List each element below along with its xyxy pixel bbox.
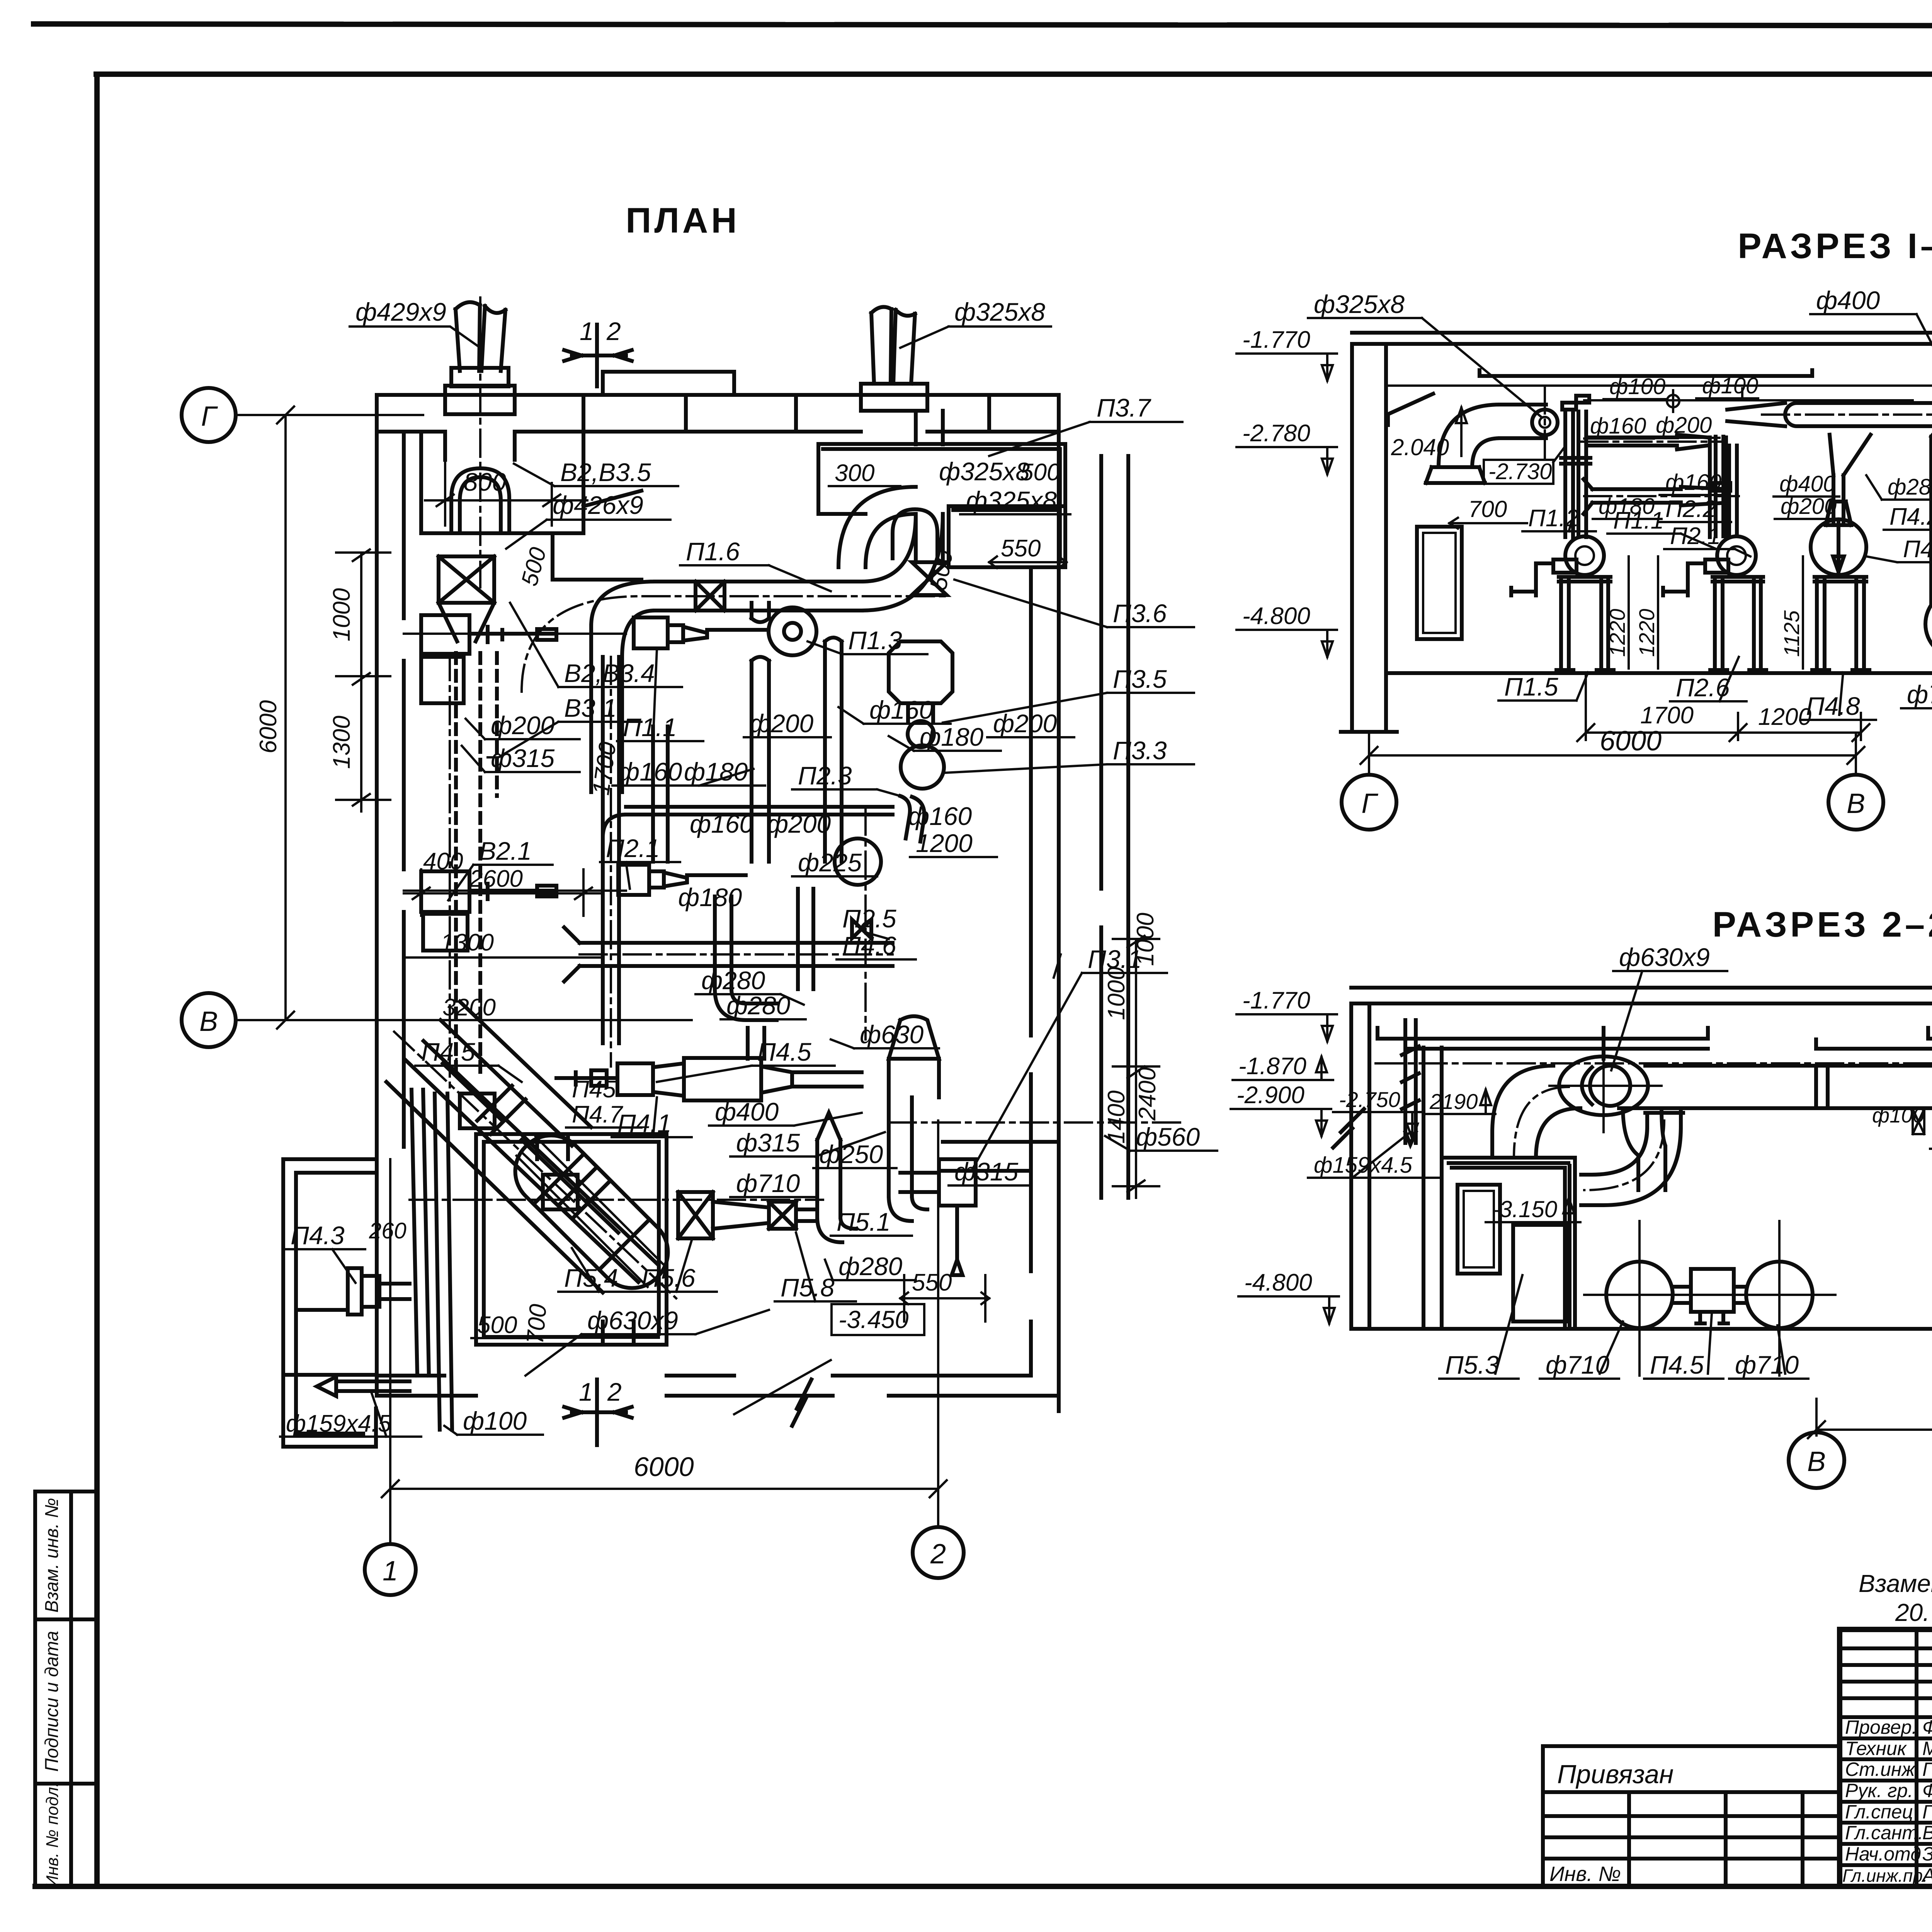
left wall chamfer — [1388, 394, 1433, 425]
svg-text:Рук. гр.: Рук. гр. — [1845, 1780, 1913, 1801]
svg-text:П2.1: П2.1 — [1670, 523, 1721, 549]
svg-text:Взам. инв. №: Взам. инв. № — [42, 1498, 62, 1613]
ceiling slab top — [1352, 331, 1932, 335]
svg-text:-4.800: -4.800 — [1244, 1269, 1312, 1296]
unit3 cone — [1826, 502, 1851, 525]
axis circle Г — [182, 388, 236, 442]
svg-text:ф200: ф200 — [767, 810, 831, 838]
svg-text:ф180: ф180 — [684, 757, 748, 786]
room П5 bottom center (insulated walls) — [476, 1134, 667, 1345]
svg-text:П4.8: П4.8 — [1806, 692, 1860, 720]
svg-text:ф200: ф200 — [1781, 494, 1837, 519]
svg-text:2600: 2600 — [469, 866, 523, 892]
hook pipe — [900, 796, 924, 842]
damper box on П1.6 — [696, 582, 724, 611]
svg-text:1300: 1300 — [328, 716, 355, 769]
plan top wall band — [377, 395, 1059, 432]
В3.1 shaft centerline — [404, 634, 626, 891]
unit3 pedestal — [1812, 577, 1869, 673]
svg-text:Фоменкова: Фоменкова — [1922, 1716, 1932, 1738]
section mark 1-2 bottom — [564, 1379, 632, 1445]
svg-text:1125: 1125 — [1779, 610, 1804, 657]
svg-text:Горленко: Горленко — [1922, 1801, 1932, 1823]
svg-text:550: 550 — [912, 1269, 952, 1296]
svg-text:Инв. №: Инв. № — [1549, 1862, 1621, 1886]
small risers между units — [1716, 437, 1844, 536]
heater unit П1.1 row — [634, 617, 668, 648]
axis circle 2 — [913, 1527, 964, 1578]
svg-text:П3.6: П3.6 — [1113, 599, 1167, 628]
svg-text:Г: Г — [1361, 788, 1378, 819]
unit1 pedestal — [1556, 577, 1614, 673]
dim 6000 bottom — [382, 1480, 947, 1497]
riser pair f160 — [752, 603, 769, 862]
break mark left floor r2 — [1333, 1109, 1364, 1148]
В3.1 shaft — [469, 627, 556, 642]
svg-text:Пугачева: Пугачева — [1922, 1759, 1932, 1780]
svg-text:ф100: ф100 — [463, 1406, 527, 1435]
column axis continuation — [1368, 732, 1370, 775]
riser to stack2 — [916, 411, 943, 562]
svg-text:550: 550 — [1001, 535, 1041, 562]
svg-text:Гл.спец: Гл.спец — [1845, 1801, 1913, 1823]
svg-text:В2.1: В2.1 — [479, 837, 532, 865]
left vertical dim 6000 — [277, 406, 294, 1029]
chamber elbow arc — [838, 487, 916, 567]
svg-text:-4.800: -4.800 — [1242, 603, 1310, 629]
main horizontal duct r2 — [1619, 1066, 1932, 1108]
main duct П1.6 horizontal run — [591, 582, 862, 657]
inner frame left edge — [94, 74, 100, 1886]
svg-text:ф200: ф200 — [993, 709, 1057, 738]
riser В2/В3 double line — [456, 653, 497, 1074]
svg-text:ф426х9: ф426х9 — [553, 491, 643, 519]
short horizontal duct pair — [564, 927, 893, 981]
chamber dotted insulation — [823, 449, 1060, 562]
right margin dim chain — [1113, 936, 1159, 1198]
big vertical duct f630 — [1931, 424, 1932, 603]
svg-text:ф159х4.5: ф159х4.5 — [1314, 1153, 1413, 1178]
svg-text:ф159х4.5: ф159х4.5 — [286, 1410, 391, 1437]
left column — [1341, 344, 1397, 732]
duct row f160/f200 — [1590, 435, 1707, 449]
axis circle 1 — [365, 1544, 416, 1595]
section mark 1-2 top — [564, 325, 632, 386]
top right chamber — [818, 444, 1065, 567]
fan section circle f630 — [1559, 1056, 1648, 1115]
duct joints — [1816, 1066, 1932, 1108]
svg-text:П2.5: П2.5 — [842, 904, 896, 933]
svg-text:-3.150: -3.150 — [1492, 1196, 1557, 1222]
svg-text:П4.7: П4.7 — [572, 1101, 624, 1128]
svg-text:2.040: 2.040 — [1391, 434, 1449, 460]
motor box mid — [1691, 1269, 1734, 1312]
stack 1 centerline — [479, 298, 481, 587]
П1.6 centerline — [522, 596, 951, 692]
svg-text:П1.5: П1.5 — [1504, 672, 1558, 701]
svg-text:500: 500 — [477, 1312, 517, 1338]
fans П4.5 mid — [1606, 1262, 1673, 1328]
svg-text:2400: 2400 — [1134, 1067, 1161, 1121]
svg-text:Провер.: Провер. — [1845, 1716, 1917, 1738]
П4.1 inlet shaft — [556, 1070, 617, 1086]
riser pair below — [715, 896, 731, 989]
stamp narrow rows — [1840, 1648, 1932, 1717]
mid horizontal duct f225 — [603, 807, 893, 838]
svg-text:ф200: ф200 — [491, 711, 555, 740]
wall fan unit В3.1 — [421, 615, 469, 654]
unit1 fan — [1565, 536, 1604, 575]
stamp vertical dividers left — [1917, 1629, 1932, 1886]
svg-text:ф325х8: ф325х8 — [966, 486, 1057, 515]
left attribute column table — [35, 1492, 97, 1888]
ф560 duct dashdot — [889, 1121, 1182, 1124]
pipe f159 left — [1402, 1020, 1419, 1145]
vessel П3.5 — [889, 641, 952, 723]
П5.3 inner cabinet — [1513, 1225, 1568, 1321]
svg-text:Мараева: Мараева — [1922, 1738, 1932, 1759]
svg-text:ф225: ф225 — [798, 848, 862, 877]
svg-text:В: В — [199, 1006, 218, 1037]
svg-text:800: 800 — [464, 468, 506, 496]
svg-text:Техник: Техник — [1845, 1738, 1907, 1759]
riser П2.2 — [1710, 437, 1730, 537]
bottom wall opening mark — [734, 1360, 831, 1414]
svg-text:1200: 1200 — [916, 829, 973, 857]
slab strips — [1378, 1028, 1932, 1049]
svg-text:ф315: ф315 — [736, 1128, 800, 1157]
duct right vertical f315 — [889, 1097, 927, 1221]
f325 pipe circle — [1532, 410, 1558, 435]
unit2 fan — [1717, 536, 1756, 575]
svg-text:ф325х8: ф325х8 — [954, 298, 1045, 326]
stamp staff row lines — [1840, 1738, 1932, 1865]
П2.1 heater row — [618, 865, 649, 895]
Привязан mini table — [1543, 1746, 1840, 1886]
svg-text:П5.3: П5.3 — [1445, 1350, 1499, 1379]
diagonal duct b — [440, 1002, 591, 1146]
svg-text:П3.5: П3.5 — [1113, 665, 1167, 693]
П3.6 damper on riser — [912, 562, 947, 595]
diagonal duct extra lines — [386, 1063, 618, 1293]
svg-text:П1.1: П1.1 — [1613, 507, 1664, 534]
svg-text:Инв. № подл.: Инв. № подл. — [43, 1782, 62, 1888]
svg-text:ф400: ф400 — [1816, 286, 1880, 315]
ceiling slab second — [1352, 342, 1932, 346]
svg-text:РАЗРЕЗ 2–2: РАЗРЕЗ 2–2 — [1713, 905, 1932, 944]
axis 1 extension — [389, 1159, 391, 1544]
label ф710 dashdot run — [410, 1199, 823, 1201]
diagonal flanges — [477, 1086, 609, 1217]
svg-text:1000: 1000 — [1132, 913, 1159, 966]
elbow outlet duct — [1500, 405, 1546, 438]
elbow to П4.1 — [715, 989, 777, 1020]
svg-text:Альшиц: Альшиц — [1921, 1864, 1932, 1886]
beam underside — [1387, 386, 1932, 391]
svg-text:В: В — [1807, 1446, 1826, 1477]
axis circle В r2 — [1789, 1432, 1844, 1488]
svg-text:-1.770: -1.770 — [1242, 327, 1310, 353]
wall fan unit В2.1 lower — [421, 871, 469, 912]
svg-text:ф160: ф160 — [1590, 413, 1646, 439]
svg-text:-1.870: -1.870 — [1238, 1053, 1306, 1080]
svg-text:1000: 1000 — [328, 588, 355, 641]
unit3 fan big — [1811, 519, 1866, 575]
svg-text:ф710: ф710 — [1735, 1350, 1799, 1379]
svg-text:ф100: ф100 — [1702, 373, 1758, 398]
svg-text:700: 700 — [522, 1303, 552, 1345]
unit1 motor+crank — [1511, 560, 1577, 595]
svg-text:ф180: ф180 — [920, 723, 984, 751]
suspended strips — [1480, 370, 1932, 380]
svg-text:ф710: ф710 — [1907, 680, 1932, 709]
interior risers bundle — [603, 657, 813, 1059]
svg-text:П5.6: П5.6 — [641, 1264, 696, 1292]
svg-text:Г: Г — [201, 401, 218, 432]
svg-text:ф315: ф315 — [491, 744, 555, 772]
svg-text:ф280: ф280 — [1888, 474, 1932, 500]
label -3.450 box — [832, 1304, 924, 1335]
svg-text:Взамен листа 12: Взамен листа 12 — [1859, 1570, 1932, 1597]
svg-text:ф325х8: ф325х8 — [939, 457, 1030, 486]
svg-text:-1.770: -1.770 — [1242, 987, 1310, 1014]
row divider 1 — [35, 1617, 97, 1621]
elbow centerline — [1514, 1087, 1569, 1158]
svg-text:6000: 6000 — [255, 700, 282, 753]
row divider 2 — [35, 1782, 97, 1786]
П5.6 filter unit — [678, 1192, 713, 1238]
diagonal duct centerline — [394, 1032, 676, 1298]
svg-text:Волкова: Волкова — [1922, 1822, 1932, 1844]
П4.1 train — [617, 1063, 653, 1095]
fan centerlines — [1584, 1221, 1835, 1376]
svg-text:Фоменкова: Фоменкова — [1922, 1780, 1932, 1801]
svg-text:ф325х8: ф325х8 — [1314, 290, 1405, 318]
big fan 1 — [1925, 590, 1932, 658]
bowtie П4.6 — [852, 920, 871, 938]
funnel below damper — [439, 603, 494, 641]
svg-text:Ст.инж.: Ст.инж. — [1845, 1759, 1920, 1780]
room П5.3 thick walls — [1442, 1158, 1575, 1329]
vertical pipes near axis 1 — [412, 1090, 452, 1430]
svg-text:ф400: ф400 — [715, 1097, 779, 1126]
П4.3 wall fitting — [348, 1268, 362, 1315]
svg-text:ф630х9: ф630х9 — [587, 1306, 678, 1335]
plan bottom wall — [377, 1376, 1059, 1396]
floor line — [1386, 671, 1932, 675]
svg-text:ф200: ф200 — [1656, 413, 1712, 438]
svg-text:ф315: ф315 — [954, 1157, 1019, 1186]
floor r2 — [1351, 1327, 1932, 1331]
axis circle Г r1 — [1342, 775, 1396, 830]
svg-text:ф100: ф100 — [1609, 374, 1665, 399]
duct drop to left riser — [591, 626, 622, 792]
annex bottom left — [283, 1159, 377, 1447]
column top — [35, 1490, 97, 1493]
svg-text:-3.450: -3.450 — [838, 1306, 909, 1333]
unit2 pedestal — [1710, 577, 1766, 673]
right outer wall lines — [1101, 456, 1128, 1198]
svg-text:1200: 1200 — [1758, 704, 1811, 730]
plan left wall — [377, 395, 404, 1396]
П3.1 unit right — [939, 1159, 976, 1206]
П1.6 right elbow up — [862, 514, 943, 611]
svg-text:ф280: ф280 — [838, 1252, 903, 1281]
svg-text:700: 700 — [1468, 496, 1507, 522]
svg-text:2: 2 — [607, 1378, 622, 1406]
flanged drop piece right of fan — [1581, 1109, 1683, 1205]
paper top edge line — [34, 24, 1932, 26]
stack 1 pipe f429x9 — [456, 302, 505, 371]
svg-text:П1.6: П1.6 — [686, 537, 740, 566]
svg-text:2190: 2190 — [1429, 1089, 1478, 1114]
svg-text:Подписи и дата: Подписи и дата — [42, 1631, 62, 1772]
inner frame bottom edge — [35, 1884, 1932, 1889]
svg-text:-2.730: -2.730 — [1488, 459, 1552, 484]
svg-text:1300: 1300 — [440, 929, 494, 956]
left dim chain 1000/1300 — [336, 549, 390, 811]
diagonal duct П4.5 run a — [405, 1041, 657, 1282]
top band bottom / frame top edge — [96, 71, 1932, 77]
top wall joints — [583, 372, 989, 432]
svg-text:300: 300 — [835, 460, 874, 486]
svg-text:2: 2 — [606, 317, 621, 345]
svg-text:1000: 1000 — [1103, 967, 1130, 1020]
svg-text:ПЛАН: ПЛАН — [626, 201, 740, 240]
svg-text:1220: 1220 — [1605, 609, 1629, 657]
small boxes along diagonal — [460, 1094, 495, 1128]
П5.1 riser — [817, 1113, 856, 1242]
big duct f400 — [1785, 403, 1932, 426]
svg-text:П3.3: П3.3 — [1113, 736, 1167, 765]
big elbow duct to room — [1492, 1066, 1580, 1158]
second duct row — [1583, 479, 1727, 514]
svg-text:В2,В3.5: В2,В3.5 — [560, 458, 651, 486]
svg-text:В: В — [1847, 788, 1865, 819]
svg-text:П4.3: П4.3 — [291, 1221, 345, 1250]
svg-text:ф160: ф160 — [869, 696, 934, 724]
svg-text:П5.1: П5.1 — [837, 1207, 891, 1236]
svg-text:-2.750: -2.750 — [1339, 1087, 1400, 1112]
svg-text:П4.5: П4.5 — [757, 1037, 811, 1066]
svg-text:Привязан: Привязан — [1557, 1760, 1673, 1789]
axis 2 extension — [937, 1121, 939, 1527]
svg-text:Нач.отд: Нач.отд — [1845, 1843, 1921, 1865]
svg-text:ф250: ф250 — [819, 1140, 883, 1168]
column divider — [69, 1492, 73, 1886]
svg-text:500: 500 — [1020, 459, 1060, 486]
pipe f159 bottom left — [317, 1377, 410, 1396]
svg-text:-2.900: -2.900 — [1236, 1082, 1304, 1109]
interior dashdot centerlines — [450, 653, 893, 1090]
ф100 valve below duct — [1913, 1109, 1924, 1134]
svg-text:-2.780: -2.780 — [1242, 420, 1310, 447]
ceiling slab top — [1351, 986, 1932, 990]
exhaust stack 2 (П3.7) flange — [861, 384, 927, 411]
f100 pipe — [1584, 388, 1913, 400]
stack 1 upper flange — [451, 368, 509, 386]
silencer П5.4 diagonal cylinder — [501, 1121, 682, 1303]
small elbow below duct — [1623, 1108, 1665, 1190]
column outer left — [33, 1492, 37, 1886]
svg-text:6000: 6000 — [1600, 726, 1662, 757]
В2.1 shaft lower — [469, 884, 556, 899]
left window — [1417, 527, 1462, 639]
stack 2 pipe f325x8 — [871, 307, 915, 384]
svg-text:В2,В3.4: В2,В3.4 — [564, 659, 655, 687]
svg-text:П4.5: П4.5 — [1650, 1350, 1704, 1379]
svg-text:П3.7: П3.7 — [1097, 393, 1151, 422]
fan П2.4 circle — [835, 838, 881, 885]
plan right wall — [1031, 432, 1059, 1411]
ceiling slab second — [1351, 1002, 1932, 1005]
ceiling centerline — [1376, 1062, 1932, 1065]
svg-text:ф160: ф160 — [908, 802, 972, 830]
svg-text:ф160: ф160 — [618, 757, 682, 786]
svg-text:ф560: ф560 — [1136, 1122, 1200, 1151]
svg-text:Гл.сант.: Гл.сант. — [1845, 1822, 1923, 1844]
riser pair f180 — [825, 638, 842, 862]
svg-text:РАЗРЕЗ I–I: РАЗРЕЗ I–I — [1738, 226, 1932, 266]
axis circle В r1 — [1855, 733, 1857, 775]
unit2 motor+crank — [1663, 560, 1728, 595]
svg-text:П2.3: П2.3 — [798, 761, 852, 790]
riser П4.2 cone — [1830, 435, 1871, 502]
svg-text:2: 2 — [930, 1539, 946, 1570]
svg-text:20. 12.85 г.: 20. 12.85 г. — [1895, 1599, 1932, 1626]
fan П1.3 — [769, 607, 816, 655]
break mark bottom wall — [792, 1379, 811, 1426]
В axis line — [236, 1019, 692, 1021]
axis circle В — [182, 993, 236, 1047]
svg-text:П4.1: П4.1 — [1903, 536, 1932, 563]
svg-text:ф710: ф710 — [736, 1169, 800, 1197]
svg-text:1: 1 — [579, 1378, 593, 1406]
svg-text:ф160: ф160 — [1665, 470, 1721, 495]
unit1 risers — [1561, 396, 1590, 537]
svg-text:Загродский: Загродский — [1922, 1843, 1932, 1865]
П5.3 door — [1458, 1185, 1500, 1274]
svg-text:400: 400 — [423, 848, 463, 875]
svg-text:П4.2: П4.2 — [1889, 503, 1932, 530]
svg-text:Гл.инж.пр.: Гл.инж.пр. — [1842, 1866, 1928, 1886]
intake hood left chamber — [451, 468, 509, 531]
svg-text:ф160: ф160 — [690, 810, 754, 838]
fan П3.3 — [901, 745, 944, 789]
svg-text:П45: П45 — [572, 1076, 616, 1103]
svg-text:П4.5: П4.5 — [421, 1037, 475, 1066]
room inner openings — [537, 1134, 634, 1345]
svg-text:1: 1 — [580, 317, 594, 345]
label -2.730 boxed — [1484, 460, 1553, 484]
svg-text:ф100: ф100 — [1872, 1104, 1924, 1127]
svg-text:1400: 1400 — [1103, 1090, 1130, 1144]
intake elbow f325x8 — [1426, 405, 1500, 483]
svg-text:6000: 6000 — [634, 1452, 694, 1482]
svg-text:1220: 1220 — [1634, 609, 1659, 657]
left chamber В2,В3.5 — [421, 432, 641, 580]
stamp outer border — [1840, 1629, 1932, 1886]
svg-text:ф400: ф400 — [1779, 471, 1835, 497]
svg-text:1: 1 — [383, 1556, 398, 1587]
svg-text:260: 260 — [369, 1218, 406, 1243]
damper X on stack 1 riser — [439, 556, 494, 603]
svg-text:П2.2: П2.2 — [1665, 496, 1716, 522]
intake hood right chamber — [893, 509, 937, 558]
svg-text:ф200: ф200 — [750, 709, 814, 738]
funnel П4.7 — [889, 1016, 939, 1097]
Г axis line — [236, 414, 423, 416]
